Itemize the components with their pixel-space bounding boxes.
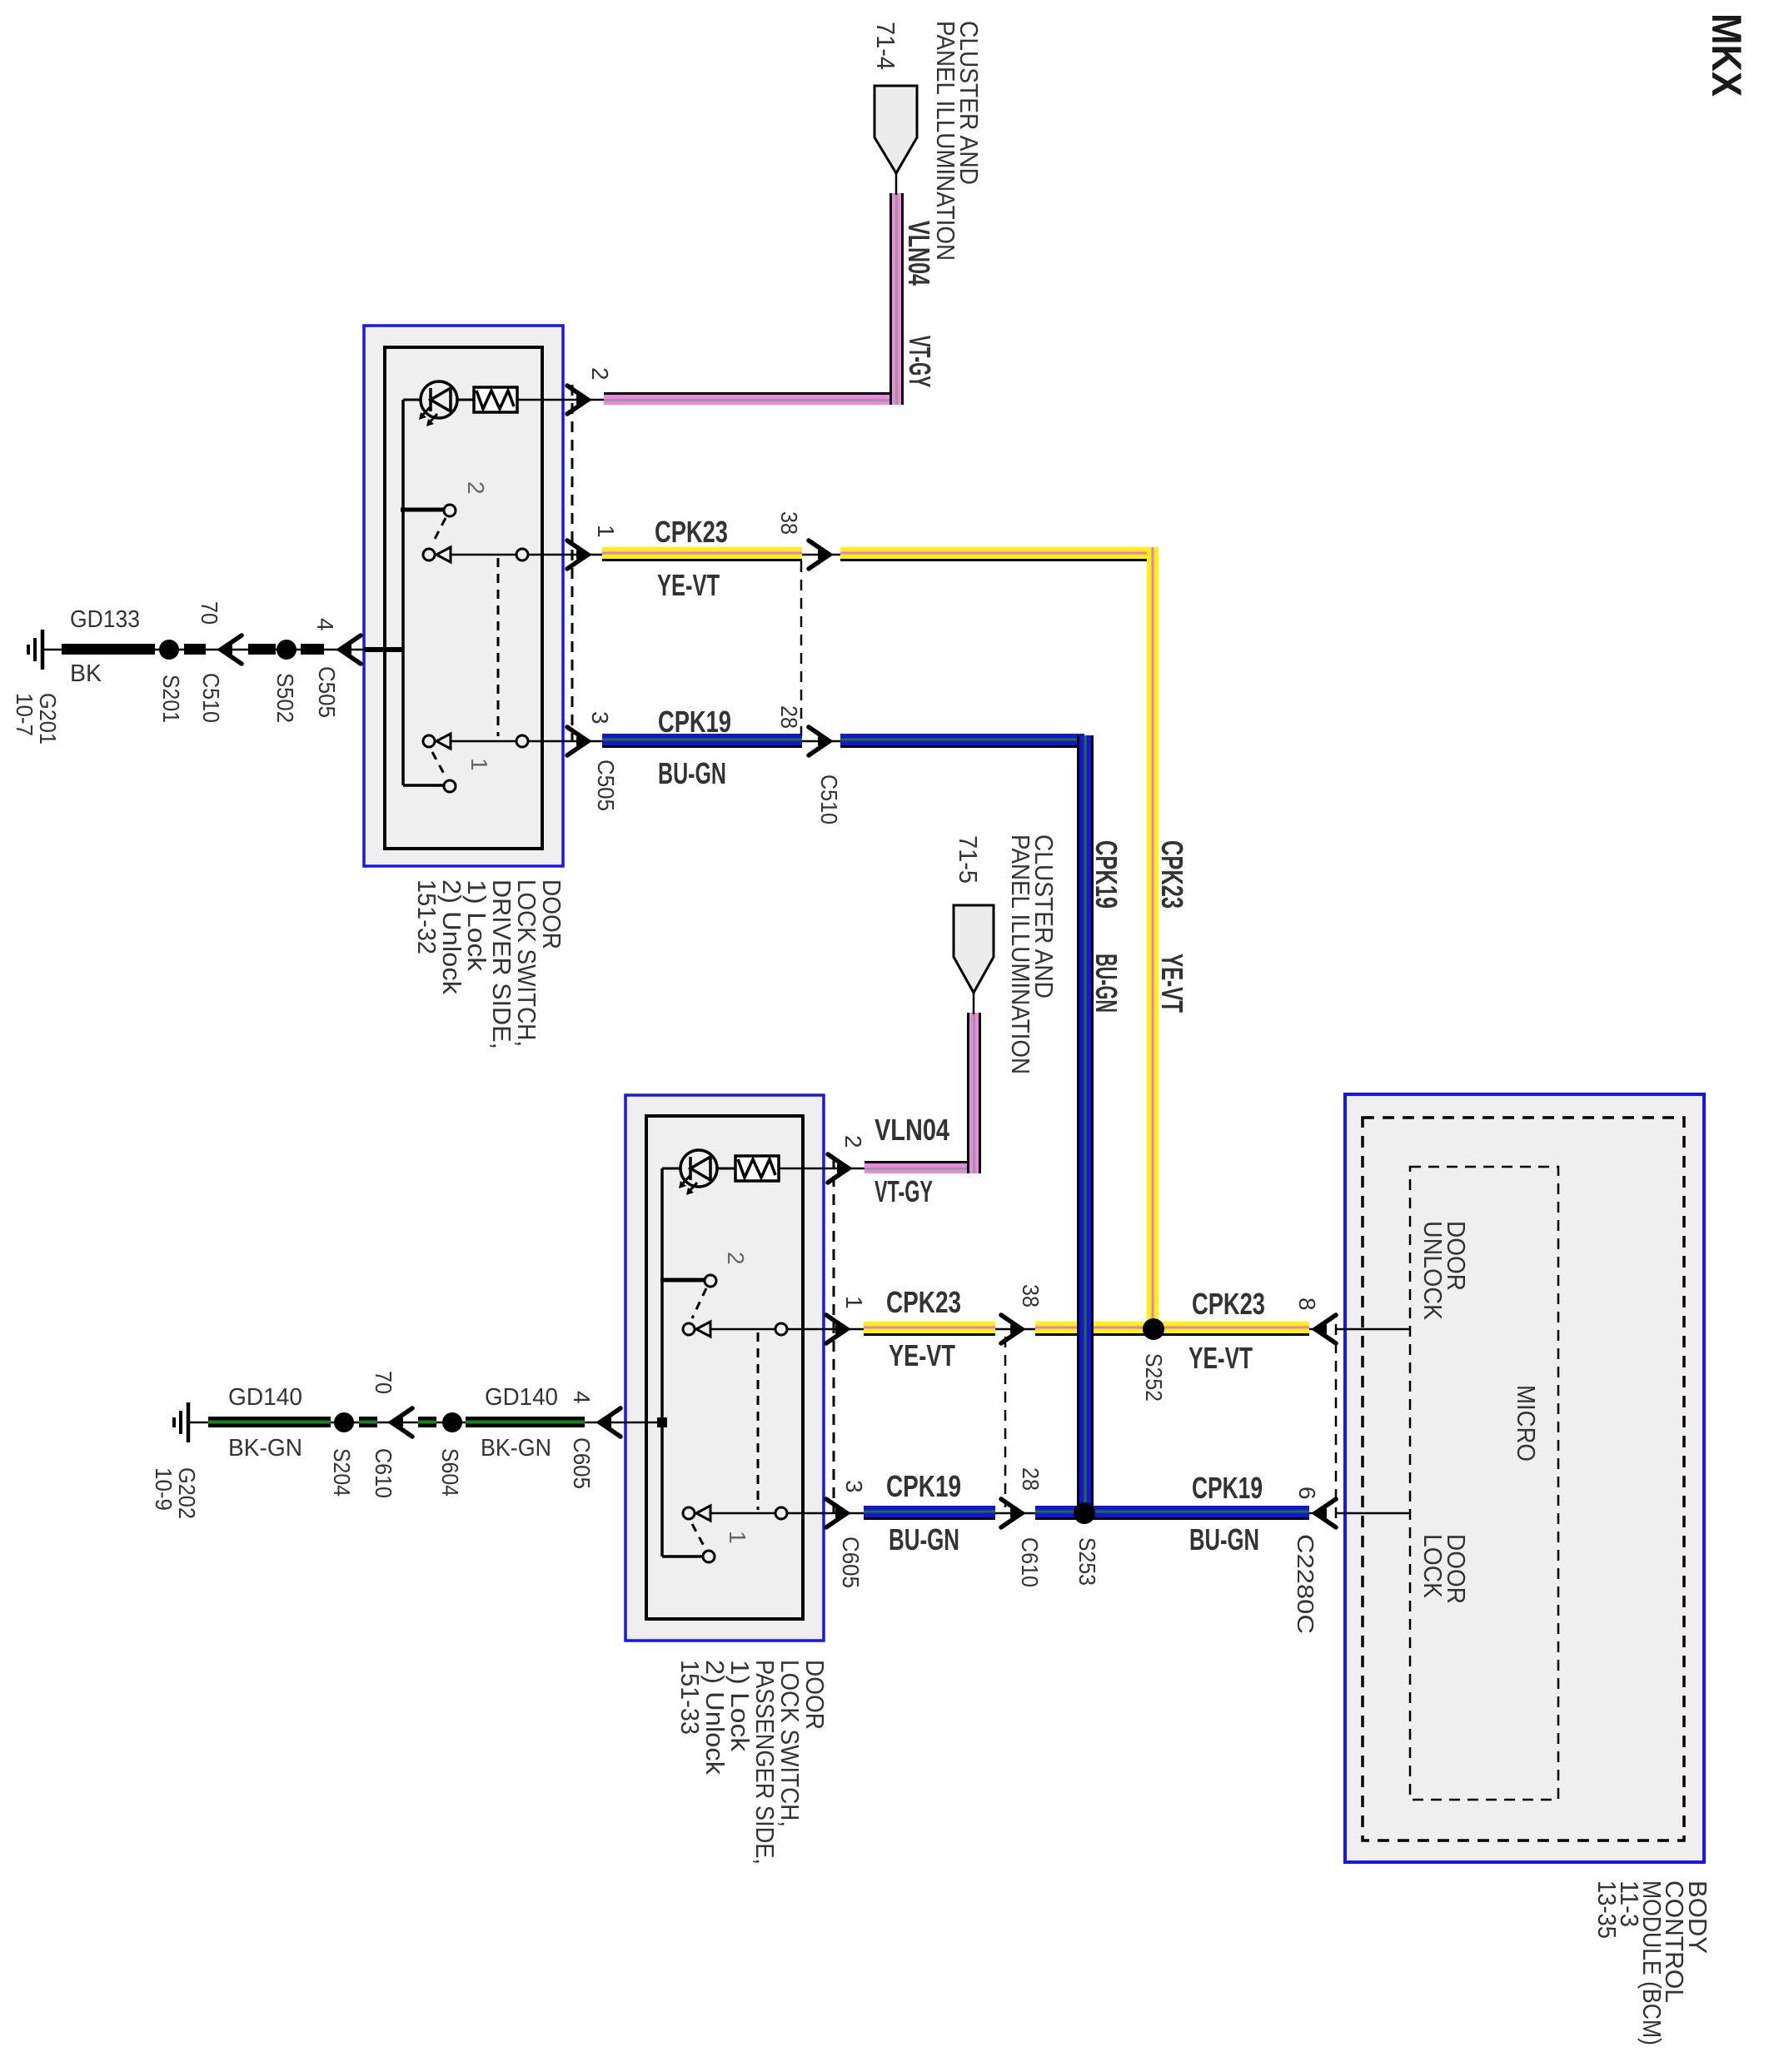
svg-text:VT-GY: VT-GY <box>875 1174 933 1208</box>
svg-text:3: 3 <box>841 1480 867 1493</box>
svg-text:BU-GN: BU-GN <box>1089 954 1124 1013</box>
svg-text:CPK23: CPK23 <box>1192 1287 1265 1321</box>
svg-text:GD133: GD133 <box>70 606 140 633</box>
BCM MICRO block (dashed) <box>1410 1167 1558 1800</box>
svg-text:CPK19: CPK19 <box>886 1469 961 1503</box>
wire driver pin 1 internal <box>451 554 588 556</box>
svg-text:UNLOCK: UNLOCK <box>1418 1221 1448 1320</box>
wire CPK19 BU-GN driver horizontal <box>588 740 1086 743</box>
svg-text:CPK23: CPK23 <box>655 515 728 549</box>
terminal circle passenger pin1 wire <box>775 1323 787 1335</box>
resistor passenger illumination <box>735 1156 779 1181</box>
svg-text:C610: C610 <box>1017 1537 1043 1587</box>
passenger door lock switch box <box>625 1095 824 1641</box>
splice S604 <box>442 1412 462 1432</box>
svg-text:BK: BK <box>70 660 102 687</box>
wire driver pin 4 internal <box>364 647 403 652</box>
svg-text:10-9: 10-9 <box>151 1467 177 1511</box>
svg-text:G202: G202 <box>174 1467 200 1519</box>
wire driver contact 1 stub <box>403 784 445 787</box>
svg-text:MICRO: MICRO <box>1512 1385 1541 1462</box>
lamp passenger illumination LED <box>680 1150 717 1187</box>
svg-text:CPK23: CPK23 <box>886 1285 961 1319</box>
connector C510 inline (ground, chevron) <box>221 635 242 664</box>
svg-text:2: 2 <box>463 481 489 495</box>
svg-text:BU-GN: BU-GN <box>889 1522 959 1556</box>
svg-text:3: 3 <box>587 711 613 725</box>
resistor driver illumination <box>474 387 517 412</box>
splice S253 <box>1074 1502 1095 1524</box>
driver switch inner case <box>385 347 542 849</box>
svg-text:S201: S201 <box>158 675 184 723</box>
svg-text:CPK19: CPK19 <box>1192 1471 1263 1505</box>
svg-text:G201: G201 <box>35 693 61 745</box>
svg-text:VLN04: VLN04 <box>875 1113 949 1147</box>
svg-text:2: 2 <box>840 1135 866 1148</box>
connector C610 pin 38 (chevron) <box>1001 1315 1022 1343</box>
splice S201 <box>159 640 179 660</box>
svg-text:71-5: 71-5 <box>954 835 983 884</box>
switch blade driver lower (dashed) <box>432 752 444 774</box>
pin 3 driver (chevron) <box>567 727 588 755</box>
wire driver lamp feed <box>403 399 421 401</box>
svg-text:LOCK: LOCK <box>1418 1534 1448 1598</box>
svg-text:4: 4 <box>312 618 338 631</box>
svg-text:28: 28 <box>776 705 802 729</box>
svg-text:38: 38 <box>776 511 802 535</box>
BCM pin 6 (chevron) <box>1315 1499 1336 1527</box>
pin 2 driver (chevron) <box>567 386 588 414</box>
svg-text:BK-GN: BK-GN <box>481 1435 551 1462</box>
body control module BCM box <box>1345 1094 1704 1862</box>
pin 2 passenger (chevron) <box>828 1154 849 1183</box>
wire pentagon 71-4 lead <box>895 173 898 195</box>
wire passenger switch internal bus <box>660 1168 664 1556</box>
wire passenger pin 4 internal <box>625 1422 662 1424</box>
svg-text:CPK19: CPK19 <box>1089 840 1124 909</box>
BCM pin 8 (chevron) <box>1315 1315 1336 1343</box>
connector C510 pin 28 (chevron) <box>809 727 830 755</box>
svg-text:S253: S253 <box>1074 1537 1100 1586</box>
svg-text:S604: S604 <box>437 1448 463 1497</box>
pin 3 passenger (chevron) <box>826 1499 847 1527</box>
svg-text:1: 1 <box>466 758 492 771</box>
svg-text:71-4: 71-4 <box>871 22 900 70</box>
wire VLN04 VT-GY passenger horizontal <box>849 1168 979 1170</box>
wire driver contact 2 stub <box>401 508 445 512</box>
svg-text:C2280C: C2280C <box>1293 1534 1318 1634</box>
connector C605 boundary (dashed) <box>833 1158 835 1513</box>
svg-text:C605: C605 <box>569 1437 595 1489</box>
svg-text:2: 2 <box>723 1252 749 1265</box>
switch blade passenger upper (dashed) <box>692 1288 706 1318</box>
connector C610 boundary (dashed) <box>1004 1337 1007 1507</box>
connector 71-5 pentagon (CLUSTER AND PANEL ILLUMINATION) <box>954 905 994 993</box>
wire passenger lamp feed <box>662 1168 680 1170</box>
svg-text:C505: C505 <box>314 666 340 718</box>
wire VLN04 VT-GY driver horizontal <box>588 399 604 401</box>
pin 4 driver (chevron) <box>340 635 361 664</box>
connector C505 boundary (dashed) <box>571 385 574 740</box>
svg-text:GD140: GD140 <box>485 1384 558 1411</box>
splice S204 <box>334 1412 354 1432</box>
wire VLN04 VT-GY passenger vertical <box>969 1013 979 1173</box>
wire CPK19 BU-GN vertical run to S253 <box>1079 735 1091 1508</box>
wire VLN04 VT-GY driver vertical <box>891 193 901 405</box>
svg-text:VLN04: VLN04 <box>902 221 936 286</box>
switch blade passenger lower (dashed) <box>692 1524 704 1546</box>
pin 1 driver (chevron) <box>567 540 588 569</box>
svg-text:1: 1 <box>725 1531 750 1544</box>
contact common passenger upper <box>683 1323 695 1335</box>
lamp driver illumination LED <box>421 381 457 418</box>
wire CPK23 YE-VT vertical run to S252 <box>1147 547 1159 1324</box>
driver door lock switch box <box>364 326 563 866</box>
splice S252 <box>1143 1318 1164 1340</box>
svg-text:GD140: GD140 <box>228 1384 302 1411</box>
connector C2280C boundary (dashed) <box>1335 1324 1338 1519</box>
svg-text:C605: C605 <box>838 1537 864 1588</box>
svg-text:C610: C610 <box>371 1448 396 1498</box>
svg-text:PANEL ILLUMINATION: PANEL ILLUMINATION <box>1006 834 1035 1074</box>
ground G201 <box>41 630 45 670</box>
wire BCM pin8 to MICRO <box>1337 1328 1410 1331</box>
connector 71-4 pentagon (CLUSTER AND PANEL ILLUMINATION) <box>875 86 917 173</box>
svg-text:1: 1 <box>593 525 619 538</box>
wire BCM pin6 to MICRO <box>1337 1512 1410 1515</box>
wire pentagon 71-5 lead <box>973 993 975 1014</box>
wire passenger contact 2 stub <box>660 1278 705 1283</box>
svg-text:4: 4 <box>569 1391 595 1404</box>
contact 2 driver switch <box>444 505 456 516</box>
wire driver pin 3 internal <box>451 740 588 743</box>
svg-text:BK-GN: BK-GN <box>228 1435 302 1462</box>
svg-text:CPK23: CPK23 <box>1155 840 1189 909</box>
svg-text:28: 28 <box>1018 1467 1044 1491</box>
svg-text:YE-VT: YE-VT <box>657 568 720 602</box>
junction passenger pin4 to bus <box>657 1417 667 1427</box>
wire passenger contact 1 stub <box>662 1555 704 1558</box>
wire CPK19 BU-GN main row <box>847 1512 1315 1515</box>
contact common driver lower <box>423 735 435 747</box>
svg-text:151-32: 151-32 <box>412 879 441 954</box>
svg-text:1: 1 <box>841 1296 867 1309</box>
pin 1 passenger (chevron) <box>826 1315 847 1343</box>
switch blade driver upper (dashed) <box>432 518 446 544</box>
svg-text:C505: C505 <box>593 760 619 811</box>
mechanical link passenger switch (dashed) <box>757 1332 760 1510</box>
svg-text:YE-VT: YE-VT <box>1155 954 1189 1013</box>
terminal circle passenger pin3 wire <box>775 1507 787 1519</box>
svg-text:S502: S502 <box>272 673 298 723</box>
mechanical link driver switch (dashed) <box>497 558 500 736</box>
wire GD140 BK-GN ground run <box>188 1422 625 1424</box>
wire passenger pin 3 internal <box>710 1512 847 1515</box>
svg-text:CPK19: CPK19 <box>658 705 731 739</box>
svg-text:YE-VT: YE-VT <box>889 1338 955 1372</box>
terminal circle driver pin1 wire <box>516 549 528 560</box>
connector C610 pin 28 (chevron) <box>1001 1499 1022 1527</box>
svg-text:70: 70 <box>197 601 222 625</box>
svg-text:C510: C510 <box>816 775 842 824</box>
svg-text:BU-GN: BU-GN <box>1189 1522 1259 1556</box>
wire driver switch internal bus <box>401 400 405 785</box>
contact common driver upper <box>423 549 435 560</box>
svg-text:10-7: 10-7 <box>12 693 37 736</box>
connector C510 boundary (dashed) <box>800 561 803 735</box>
contact 2 passenger switch <box>705 1275 716 1287</box>
svg-text:13-35: 13-35 <box>1592 1880 1622 1939</box>
svg-text:2: 2 <box>587 367 613 381</box>
contact 1 driver switch <box>444 780 456 792</box>
contact common passenger lower <box>683 1507 695 1519</box>
splice S502 <box>277 640 296 660</box>
svg-text:S252: S252 <box>1141 1353 1167 1402</box>
svg-text:MKX: MKX <box>1703 13 1750 97</box>
ground G202 <box>187 1402 191 1442</box>
svg-text:70: 70 <box>371 1371 396 1394</box>
svg-text:6: 6 <box>1294 1487 1320 1500</box>
passenger switch inner case <box>646 1116 803 1619</box>
wire passenger pin 1 internal <box>710 1328 847 1331</box>
connector C610 inline (ground, chevron) <box>391 1408 412 1437</box>
wire CPK23 YE-VT main row <box>847 1328 1315 1331</box>
svg-text:151-33: 151-33 <box>675 1660 705 1735</box>
terminal circle driver pin3 wire <box>516 735 528 747</box>
BCM internal boundary (dashed) <box>1363 1118 1684 1840</box>
svg-text:38: 38 <box>1018 1284 1044 1307</box>
connector C510 pin 38 (chevron) <box>809 540 830 569</box>
svg-text:C510: C510 <box>198 673 224 723</box>
svg-text:8: 8 <box>1294 1297 1320 1311</box>
pin 4 passenger / connector C605 (chevron) <box>600 1408 620 1437</box>
svg-text:S204: S204 <box>329 1448 355 1497</box>
svg-text:BU-GN: BU-GN <box>658 756 726 790</box>
svg-text:YE-VT: YE-VT <box>1188 1341 1253 1375</box>
wire GD133 BK ground run <box>42 649 364 651</box>
contact 1 passenger switch <box>703 1551 715 1562</box>
svg-text:VT-GY: VT-GY <box>903 336 937 387</box>
wire CPK23 YE-VT driver horizontal <box>588 554 1159 556</box>
